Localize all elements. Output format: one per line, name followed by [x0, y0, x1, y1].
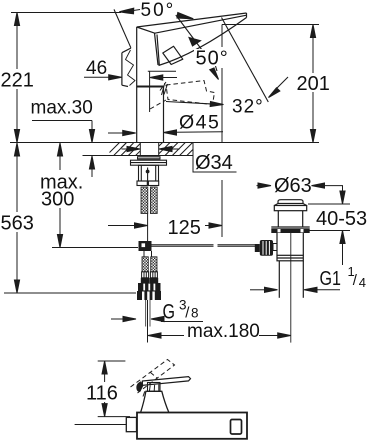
cartridge mount block [148, 383, 161, 392]
hose ferrule collars [142, 272, 158, 278]
angle annotation 50 deg top: lever axis leg [114, 9, 131, 47]
back window detail [231, 420, 242, 435]
svg-text:116: 116 [86, 383, 118, 405]
drain centre line [290, 233, 292, 343]
reference line top (handle top level) [11, 12, 121, 14]
svg-text:max.180: max.180 [187, 321, 260, 342]
angle annotation 50 deg second: down arrow to dashed spout [216, 66, 218, 71]
deck hatch [110, 143, 194, 156]
mounting nut dark band [137, 156, 161, 159]
dimension 201 [310, 25, 315, 143]
pop-up waste drain assembly [271, 200, 309, 227]
faucet front view [122, 13, 247, 143]
svg-text:32°: 32° [232, 97, 264, 118]
dimension 46 [84, 75, 177, 80]
arrowhead at spout top edge [177, 12, 193, 18]
dimension max.180 [148, 333, 291, 338]
dashed raised lever side view [131, 360, 175, 394]
bottom side view [137, 413, 247, 439]
hose centre line [147, 214, 149, 242]
reference line hose connection level [52, 247, 138, 249]
base column trapezoid [141, 391, 169, 412]
spout top edge [137, 13, 247, 27]
connection nuts dark band [138, 283, 161, 291]
handle knob diamond on top face [163, 46, 183, 64]
46 right extension tick [148, 71, 176, 112]
shank through deck [139, 143, 141, 156]
svg-text:46: 46 [86, 58, 107, 79]
50 deg top left arrowhead [119, 8, 133, 14]
spout underside [159, 18, 247, 66]
dimension max.30 [32, 121, 95, 178]
lever handle (closed position) [122, 48, 131, 87]
reference line spout outlet level [222, 24, 319, 26]
supply pipes below fittings [146, 300, 150, 327]
svg-text:50°: 50° [141, 0, 176, 21]
flexible hoses lower braid [142, 257, 157, 272]
body lower band [277, 255, 303, 260]
knurled knob [260, 240, 273, 256]
svg-text:max.30: max.30 [31, 98, 93, 119]
dimension diameter 45 [108, 130, 223, 136]
threaded shank below deck [137, 165, 159, 185]
dimension 221 [14, 13, 19, 143]
svg-text:4: 4 [359, 275, 366, 290]
dimension diameter 63 [257, 183, 344, 188]
solid lever side view [142, 377, 190, 386]
flange band [274, 206, 306, 211]
reference line deck top [10, 142, 319, 144]
knob connector [273, 244, 277, 251]
svg-text:563: 563 [1, 213, 34, 235]
svg-text:G: G [163, 301, 176, 324]
spout/body intersection zigzag [162, 83, 168, 95]
spout body bar [137, 413, 247, 439]
dimension 125 [108, 223, 222, 228]
horizontal pull rod [152, 245, 257, 247]
svg-text:Ø63: Ø63 [274, 175, 312, 197]
dashed lever open position [150, 81, 215, 110]
angle annotation 32 deg: leader arrow to outlet line [166, 102, 211, 104]
flange neck [277, 211, 279, 227]
deck bottom line [83, 155, 194, 157]
shank screw dot [146, 170, 150, 174]
hose tails below elbow [144, 251, 152, 259]
svg-text:Ø34: Ø34 [195, 152, 233, 174]
deck cross-section [83, 143, 194, 156]
svg-text:Ø45: Ø45 [179, 112, 220, 134]
svg-text:50°: 50° [196, 48, 229, 70]
svg-text:221: 221 [1, 70, 34, 92]
pull-rod elbow block [139, 241, 152, 251]
plug dome [278, 200, 303, 204]
tail pipe [278, 261, 280, 298]
svg-text:G1: G1 [320, 267, 342, 290]
dimension diameter 34 [122, 146, 237, 172]
dimension 40-53 [307, 186, 350, 265]
G3/8 end fittings [137, 291, 161, 300]
dimension G 3/8 [111, 316, 203, 321]
arrowhead at spout underside [189, 38, 201, 46]
spout second top edge [155, 15, 247, 33]
outlet reference line [75, 424, 127, 426]
angle annotation 50 deg top: right leg [176, 15, 202, 50]
svg-text:125: 125 [168, 217, 201, 239]
plug base flare [274, 204, 306, 206]
spout tip [246, 13, 248, 18]
dimension max.300 [57, 143, 62, 248]
svg-text:201: 201 [297, 73, 330, 95]
lever hatch strokes [126, 50, 136, 86]
dimension 563 [14, 143, 19, 293]
lever pivot hatch details [143, 385, 159, 397]
drain body [276, 233, 278, 255]
svg-text:300: 300 [41, 189, 74, 211]
body front-right edge doubled [155, 33, 160, 65]
svg-text:8: 8 [191, 306, 199, 321]
knob stem [255, 244, 260, 252]
reference line supply pipe end level [4, 292, 136, 294]
arrow pointing at diagonal [275, 77, 288, 90]
svg-text:40-53: 40-53 [316, 208, 367, 230]
label 50 deg second [194, 49, 227, 66]
wide rim [271, 226, 309, 228]
body left edge [136, 27, 138, 143]
lever front hook dark [136, 381, 143, 392]
hose nuts dark [141, 278, 158, 283]
body top-front edge [137, 27, 155, 33]
dimension G 1 1/4 [250, 287, 340, 292]
body right edge [163, 87, 165, 143]
mousseur outlet block [126, 417, 136, 431]
dimension 116 [98, 361, 130, 417]
deck right edge [192, 143, 194, 156]
extension line spout outlet vertical [221, 25, 223, 48]
body joint line [137, 86, 164, 88]
long diagonal leader line (spout axis) [222, 18, 269, 103]
washer flange [131, 160, 167, 165]
flexible hoses upper braid [141, 187, 157, 214]
